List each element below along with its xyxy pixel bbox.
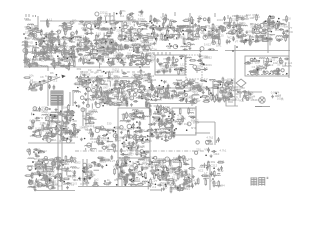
junction node (163, 86, 165, 88)
capacitor C86 (213, 35, 218, 38)
resistor R252 (43, 135, 50, 137)
inductor L67 (45, 60, 51, 61)
capacitor C7 (42, 80, 47, 83)
tube V5 (71, 32, 75, 36)
resistor R148 (142, 52, 144, 59)
capacitor C200 (156, 71, 161, 74)
resistor R227 (267, 57, 269, 64)
resistor R27 (26, 48, 28, 55)
tube V183 (56, 129, 59, 132)
tube V139 (160, 90, 164, 94)
capacitor C269 (63, 111, 68, 114)
wire (58, 112, 61, 114)
junction node (142, 57, 144, 59)
tube V109 (100, 80, 104, 84)
ground (188, 47, 191, 50)
capacitor C161 (138, 84, 141, 89)
capacitor C107 (254, 40, 259, 43)
ground (74, 101, 77, 104)
tube V138 (165, 88, 168, 91)
resistor R105 (257, 36, 264, 38)
ground (23, 59, 26, 62)
ground (25, 50, 28, 53)
svg-text:0.17: 0.17 (195, 99, 201, 103)
tube V50 (153, 18, 156, 21)
capacitor C185 (146, 101, 149, 106)
wire (114, 45, 117, 47)
svg-text:6C2: 6C2 (239, 98, 245, 102)
resistor R47 (85, 40, 87, 47)
svg-text:22012: 22012 (100, 11, 108, 15)
inductor L94 (109, 91, 115, 92)
resistor R179 (113, 104, 120, 106)
resistor R200 (225, 82, 232, 84)
capacitor C127 (28, 63, 31, 68)
resistor R76 (165, 34, 167, 41)
tube V33 (127, 17, 129, 19)
resistor R229 (258, 67, 265, 69)
wire (145, 79, 149, 81)
wire (63, 39, 67, 41)
svg-text:0.047: 0.047 (150, 42, 157, 46)
resistor R196 (203, 101, 210, 103)
wire (114, 96, 119, 98)
capacitor C42 (135, 46, 140, 49)
wire stage rail (87, 80, 89, 106)
wire (213, 38, 215, 40)
capacitor C170 (114, 80, 119, 83)
resistor R152 (135, 56, 142, 58)
inductor L114 (51, 112, 57, 113)
junction node (151, 99, 153, 101)
junction node E (33, 151, 35, 153)
capacitor C40 (138, 11, 143, 14)
svg-text:0.5: 0.5 (98, 82, 102, 86)
wire (64, 42, 68, 44)
tube V30 (124, 22, 127, 25)
resistor R133 (63, 56, 70, 58)
tube V145 (229, 87, 232, 90)
junction node (108, 61, 110, 63)
svg-text:6П1: 6П1 (121, 9, 127, 13)
junction node (204, 80, 206, 82)
resistor R198 (212, 87, 219, 89)
resistor R250 (68, 109, 70, 116)
capacitor C4 (34, 27, 39, 30)
junction node (100, 87, 102, 89)
svg-text:VT: VT (154, 179, 158, 183)
resistor R147 (83, 58, 85, 65)
svg-text:220: 220 (196, 148, 201, 152)
inductor L4 (28, 31, 34, 32)
tube V61 (203, 35, 207, 39)
resistor R5 (64, 28, 71, 30)
capacitor C250 (35, 117, 40, 120)
junction node (210, 48, 212, 50)
junction node (236, 30, 238, 32)
capacitor C110 (282, 30, 285, 35)
junction node (266, 37, 268, 39)
tube V187 (61, 136, 64, 139)
tube V72 (232, 30, 236, 34)
tube V97 (116, 55, 119, 58)
capacitor C251 (32, 131, 37, 134)
capacitor C262 (71, 123, 76, 126)
capacitor C3 (29, 32, 34, 35)
resistor R23 (55, 50, 62, 52)
svg-text:51: 51 (172, 176, 176, 180)
ground (164, 95, 167, 98)
inductor L118 (52, 127, 58, 128)
junction node (278, 18, 280, 20)
svg-text:2.2: 2.2 (152, 185, 156, 189)
tube V38 (124, 45, 127, 48)
capacitor C180 (123, 95, 126, 100)
svg-text:R7: R7 (82, 73, 86, 77)
inductor L60 (266, 39, 272, 40)
ground (129, 30, 132, 33)
capacitor C72 (162, 22, 165, 27)
junction node (257, 69, 259, 71)
resistor R210 (208, 88, 210, 95)
junction node (169, 27, 171, 29)
capacitor C221 (229, 95, 234, 98)
resistor R114 (268, 25, 275, 27)
wire (157, 94, 159, 97)
ground (109, 41, 112, 44)
tube V186 (50, 128, 53, 131)
capacitor C80 (157, 29, 162, 32)
resistor R225 (249, 71, 256, 73)
tube V177 (69, 130, 72, 133)
tube V150 (176, 85, 180, 89)
capacitor C14 (34, 47, 37, 52)
capacitor C44 (94, 42, 99, 45)
tube V137 (151, 87, 154, 90)
svg-text:22012: 22012 (64, 27, 72, 31)
resistor R244 (61, 139, 68, 141)
capacitor C54 (89, 45, 94, 48)
junction node (184, 90, 186, 92)
resistor R178 (102, 95, 104, 102)
ground (121, 91, 124, 94)
capacitor C93 (175, 29, 180, 32)
resistor R66 (153, 31, 155, 38)
svg-text:10k: 10k (64, 181, 69, 185)
resistor R53 (83, 48, 90, 50)
capacitor C207 (197, 89, 202, 92)
tube V140 (225, 83, 228, 86)
ground (24, 61, 27, 64)
capacitor C182 (143, 86, 146, 91)
capacitor C90 (187, 37, 192, 40)
capacitor C88 (187, 31, 192, 34)
svg-text:0.1: 0.1 (65, 35, 69, 39)
capacitor C118 (268, 21, 271, 26)
junction node (159, 25, 161, 27)
capacitor C89 (178, 25, 183, 28)
ground (272, 21, 275, 24)
svg-text:2.225: 2.225 (203, 32, 210, 36)
capacitor C242 (230, 92, 233, 97)
inductor L120 (56, 112, 62, 113)
capacitor C128 (41, 52, 46, 55)
tube V171 (54, 115, 58, 119)
resistor R137 (41, 84, 43, 91)
wire left block divider (28, 142, 75, 144)
inductor L15 (69, 50, 75, 51)
tube V146 (230, 82, 233, 85)
resistor R165 (126, 83, 133, 85)
capacitor C124 (57, 61, 60, 66)
wire (88, 79, 90, 81)
resistor R166 (119, 87, 126, 89)
svg-text:4.7k2: 4.7k2 (206, 135, 213, 139)
inductor L49 (163, 40, 169, 41)
svg-text:100: 100 (286, 16, 291, 20)
inductor L65 (31, 63, 37, 64)
wire (45, 120, 47, 122)
svg-text:МБМ4: МБМ4 (251, 98, 259, 102)
svg-text:150: 150 (25, 31, 30, 35)
junction node (172, 35, 174, 37)
svg-text:VT2: VT2 (204, 147, 210, 151)
tube V94 (106, 52, 109, 55)
tube V158 (250, 71, 254, 75)
tube V182 (51, 133, 55, 137)
ground (82, 101, 85, 104)
inductor L96 (171, 65, 177, 66)
tube V96 (118, 59, 122, 63)
wire (100, 78, 102, 83)
svg-text:68k25: 68k25 (46, 38, 54, 42)
resistor R192 (189, 60, 196, 62)
resistor R12 (49, 49, 56, 51)
wire (37, 66, 41, 68)
junction node (43, 38, 45, 40)
wire (188, 32, 190, 35)
junction node (177, 83, 179, 85)
resistor R25 (72, 45, 74, 52)
inductor L21 (123, 26, 129, 27)
junction node (133, 50, 135, 52)
inductor L112 (259, 58, 265, 59)
svg-text:4.7k: 4.7k (177, 113, 183, 117)
tube V75 (259, 28, 263, 32)
resistor R67 (186, 30, 193, 32)
tube V14 (51, 39, 55, 43)
capacitor C16 (39, 42, 42, 47)
capacitor C191 (169, 68, 172, 73)
resistor R238 (46, 132, 48, 139)
wire (94, 90, 97, 92)
ground (205, 87, 208, 90)
capacitor C243 (247, 93, 252, 96)
capacitor C257 (60, 131, 63, 136)
capacitor C211 (150, 85, 153, 90)
resistor R51 (112, 45, 114, 52)
svg-text:VD: VD (198, 15, 202, 19)
resistor R50 (82, 38, 89, 40)
ground (59, 134, 62, 137)
capacitor C100 (230, 32, 235, 35)
resistor R9 (27, 35, 34, 37)
inductor L30 (118, 49, 124, 50)
resistor R58 (200, 26, 207, 28)
tube V81 (26, 62, 30, 66)
resistor R52 (82, 49, 89, 51)
junction node (164, 35, 166, 37)
wire oscillator feed (47, 76, 49, 106)
capacitor C199 (165, 64, 168, 69)
resistor R190 (175, 68, 182, 70)
capacitor C28 (82, 29, 87, 32)
tube V167 (229, 92, 232, 95)
resistor R57 (218, 26, 225, 28)
junction node (258, 60, 260, 62)
tube V67 (271, 16, 274, 19)
resistor R69 (181, 26, 183, 33)
junction node (183, 33, 185, 35)
junction node (176, 37, 178, 39)
tube V64 (187, 42, 191, 46)
resistor R144 (114, 57, 121, 59)
capacitor C6 (43, 33, 48, 36)
tube V101 (130, 96, 134, 100)
capacitor C1 (46, 19, 49, 24)
svg-text:C4: C4 (263, 62, 267, 66)
capacitor C39 (129, 12, 134, 15)
inductor L74 (109, 58, 115, 59)
tube V127 (168, 57, 170, 59)
resistor R191 (194, 69, 201, 71)
wire (248, 39, 250, 44)
capacitor C26 (79, 20, 84, 23)
resistor R223 (272, 72, 279, 74)
wire (100, 50, 105, 52)
ground (55, 121, 58, 124)
ground (194, 23, 197, 26)
capacitor C104 (243, 39, 246, 44)
resistor R100 (249, 35, 251, 42)
resistor R79 (198, 25, 200, 32)
resistor R208 (221, 91, 228, 93)
capacitor C151 (130, 56, 135, 59)
tube V117 (134, 89, 138, 93)
tube V164 (256, 73, 258, 75)
junction node (51, 131, 53, 133)
wire tall rail 1 (57, 96, 59, 190)
svg-text:5.6: 5.6 (184, 169, 188, 173)
junction node (212, 30, 214, 32)
resistor R72 (212, 23, 214, 30)
inductor L53 (181, 46, 187, 47)
junction node (33, 56, 35, 58)
junction node (142, 28, 144, 30)
tube V141 (206, 96, 210, 100)
inductor L13 (70, 46, 76, 47)
ground (204, 34, 207, 37)
capacitor C131 (73, 56, 78, 59)
ground (96, 76, 99, 79)
capacitor C137 (48, 84, 51, 89)
tube V8 (63, 26, 66, 29)
capacitor C197 (179, 67, 184, 70)
junction node (30, 83, 32, 85)
capacitor C164 (99, 98, 104, 101)
ground (55, 115, 58, 118)
inductor L38 (109, 48, 115, 49)
ground (51, 30, 54, 33)
capacitor C56 (86, 40, 91, 43)
svg-text:0.012: 0.012 (138, 17, 145, 21)
wire tuner block bottom border (24, 66, 150, 68)
tube V69 (272, 16, 275, 19)
ground (245, 31, 248, 34)
svg-text:0.047: 0.047 (68, 21, 75, 25)
capacitor C218 (190, 81, 193, 86)
capacitor C177 (133, 80, 138, 83)
tube V7 (62, 25, 65, 28)
resistor R243 (54, 121, 61, 123)
resistor R34 (111, 27, 113, 34)
resistor R61 (170, 20, 172, 27)
capacitor C238 (245, 61, 250, 64)
capacitor C230 (189, 82, 194, 85)
corner wire L-shape (226, 98, 238, 106)
svg-text:VD7: VD7 (49, 121, 55, 125)
resistor R36 (125, 32, 132, 34)
svg-text:6C24: 6C24 (101, 39, 108, 43)
inductor L103 (197, 89, 203, 90)
wire (99, 63, 101, 69)
inductor L2 (29, 35, 35, 36)
svg-text:VT: VT (256, 28, 260, 32)
capacitor C58 (100, 42, 105, 45)
capacitor C15 (58, 39, 61, 44)
wire (189, 64, 193, 66)
capacitor C106 (226, 39, 229, 44)
junction node (152, 28, 154, 30)
junction node (97, 50, 99, 52)
inductor L92 (108, 92, 114, 93)
capacitor C187 (125, 100, 128, 105)
wire (105, 16, 107, 21)
capacitor C91 (216, 28, 219, 33)
junction node I (232, 50, 234, 52)
junction node (71, 48, 73, 50)
tube V175 (66, 139, 70, 143)
junction node (111, 28, 113, 30)
resistor R150 (106, 62, 113, 64)
ground (54, 132, 57, 135)
ground (197, 20, 200, 23)
inductor L115 (42, 115, 48, 116)
wire stage coupling (121, 21, 123, 40)
svg-text:МБМ: МБМ (124, 158, 131, 162)
tube V2 (32, 29, 35, 32)
tube V95 (146, 61, 150, 65)
svg-text:1M: 1M (85, 80, 90, 84)
ground (242, 33, 245, 36)
junction node (116, 13, 118, 15)
resistor R40 (131, 44, 138, 46)
capacitor C265 (50, 135, 55, 138)
capacitor C201 (172, 56, 175, 61)
junction node (209, 89, 211, 91)
resistor R157 (97, 80, 99, 87)
inductor L43 (182, 25, 188, 26)
